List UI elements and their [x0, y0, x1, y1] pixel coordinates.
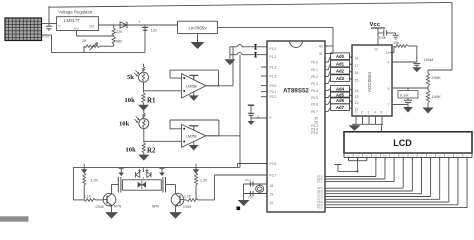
svg-text:18: 18: [270, 184, 274, 188]
svg-text:Ad7: Ad7: [336, 105, 345, 110]
svg-text:1: 1: [355, 111, 357, 115]
svg-text:NPN: NPN: [114, 205, 122, 209]
svg-text:RS: RS: [374, 155, 378, 157]
svg-text:100K: 100K: [432, 94, 442, 99]
svg-text:7: 7: [388, 103, 390, 107]
svg-text:P3.2: P3.2: [270, 95, 277, 99]
svg-text:Ad3: Ad3: [336, 76, 345, 81]
svg-text:4: 4: [374, 111, 376, 115]
svg-text:2K: 2K: [82, 39, 87, 43]
svg-text:680: 680: [116, 39, 122, 43]
svg-text:P1.3: P1.3: [270, 74, 277, 78]
svg-text:1.1K: 1.1K: [84, 195, 92, 199]
svg-text:1.1K: 1.1K: [184, 195, 192, 199]
svg-text:13: 13: [355, 95, 359, 99]
svg-text:3: 3: [368, 111, 370, 115]
svg-text:C945: C945: [96, 205, 104, 209]
svg-text:P3.5: P3.5: [311, 131, 318, 135]
svg-text:P0.7: P0.7: [311, 110, 318, 114]
svg-text:LCD: LCD: [393, 138, 412, 148]
svg-text:Lm7805v: Lm7805v: [188, 26, 207, 31]
svg-text:P0.3: P0.3: [311, 82, 318, 86]
svg-text:17: 17: [355, 64, 359, 68]
svg-text:14: 14: [355, 89, 359, 93]
svg-text:Voltage Regulator: Voltage Regulator: [58, 9, 93, 14]
svg-text:18: 18: [355, 57, 359, 61]
svg-text:P3.6: P3.6: [270, 162, 277, 166]
svg-text:P3.1: P3.1: [270, 90, 277, 94]
svg-text:9: 9: [270, 116, 272, 120]
svg-text:12v: 12v: [151, 28, 157, 33]
svg-text:19: 19: [270, 192, 274, 196]
svg-text:10uf: 10uf: [379, 36, 386, 40]
svg-text:P3.0: P3.0: [270, 84, 277, 88]
svg-text:P1.1: P1.1: [270, 55, 277, 59]
svg-text:22pf: 22pf: [245, 178, 251, 182]
svg-text:20: 20: [270, 201, 274, 205]
svg-text:R1: R1: [147, 98, 156, 105]
svg-text:P0.6: P0.6: [311, 103, 318, 107]
svg-text:0.1u: 0.1u: [42, 35, 49, 39]
svg-text:1.2K: 1.2K: [200, 179, 208, 183]
svg-text:1.2K: 1.2K: [91, 179, 99, 183]
svg-text:ADJ: ADJ: [74, 27, 80, 31]
svg-text:Ad0: Ad0: [336, 54, 345, 59]
svg-text:Ad1: Ad1: [336, 61, 345, 66]
svg-text:5k: 5k: [127, 74, 134, 81]
svg-text:220: 220: [116, 30, 122, 34]
svg-text:P0.1: P0.1: [311, 68, 318, 72]
svg-text:P0.0: P0.0: [311, 60, 318, 64]
svg-text:LM358: LM358: [186, 84, 196, 88]
svg-text:AT89S52: AT89S52: [283, 88, 309, 95]
svg-text:20: 20: [374, 48, 378, 52]
svg-text:6: 6: [388, 87, 390, 91]
svg-text:12: 12: [355, 101, 359, 105]
svg-text:Vcc: Vcc: [370, 22, 381, 28]
svg-text:P2.2: P2.2: [317, 180, 323, 183]
svg-text:P3.7: P3.7: [270, 173, 277, 177]
svg-text:P0.4: P0.4: [311, 89, 318, 93]
svg-text:P1.0: P1.0: [270, 47, 277, 51]
svg-text:Ad4: Ad4: [336, 87, 345, 92]
svg-text:Out: Out: [89, 25, 94, 29]
svg-text:10k: 10k: [125, 97, 136, 104]
svg-text:10k: 10k: [126, 147, 137, 154]
svg-text:150pf: 150pf: [424, 58, 434, 62]
svg-text:31: 31: [319, 52, 323, 56]
svg-text:Ad6: Ad6: [336, 98, 345, 103]
svg-text:0.1uf: 0.1uf: [400, 94, 409, 98]
svg-text:4: 4: [388, 61, 390, 65]
svg-text:Ad2: Ad2: [336, 69, 345, 74]
svg-text:LM317T: LM317T: [64, 18, 80, 23]
svg-text:C945: C945: [183, 205, 191, 209]
svg-text:40: 40: [319, 44, 323, 48]
svg-text:Ad5: Ad5: [336, 92, 345, 97]
svg-text:ADC0804: ADC0804: [367, 72, 372, 92]
svg-text:P3.0: P3.0: [317, 207, 323, 210]
svg-text:22pf: 22pf: [248, 195, 254, 199]
svg-text:16: 16: [355, 71, 359, 75]
svg-text:200K: 200K: [432, 75, 442, 80]
svg-text:NPN: NPN: [152, 205, 160, 209]
svg-text:In: In: [58, 25, 61, 29]
svg-text:5: 5: [381, 111, 383, 115]
svg-text:P1.2: P1.2: [270, 65, 277, 69]
svg-text:10k: 10k: [393, 41, 399, 45]
svg-text:15: 15: [355, 79, 359, 83]
svg-text:P0.2: P0.2: [311, 75, 318, 79]
svg-text:19: 19: [386, 51, 390, 55]
svg-text:R2: R2: [147, 148, 156, 155]
svg-text:P0.5: P0.5: [311, 96, 318, 100]
svg-text:2: 2: [361, 111, 363, 115]
svg-text:10k: 10k: [119, 121, 130, 128]
svg-text:LM358: LM358: [186, 134, 196, 138]
